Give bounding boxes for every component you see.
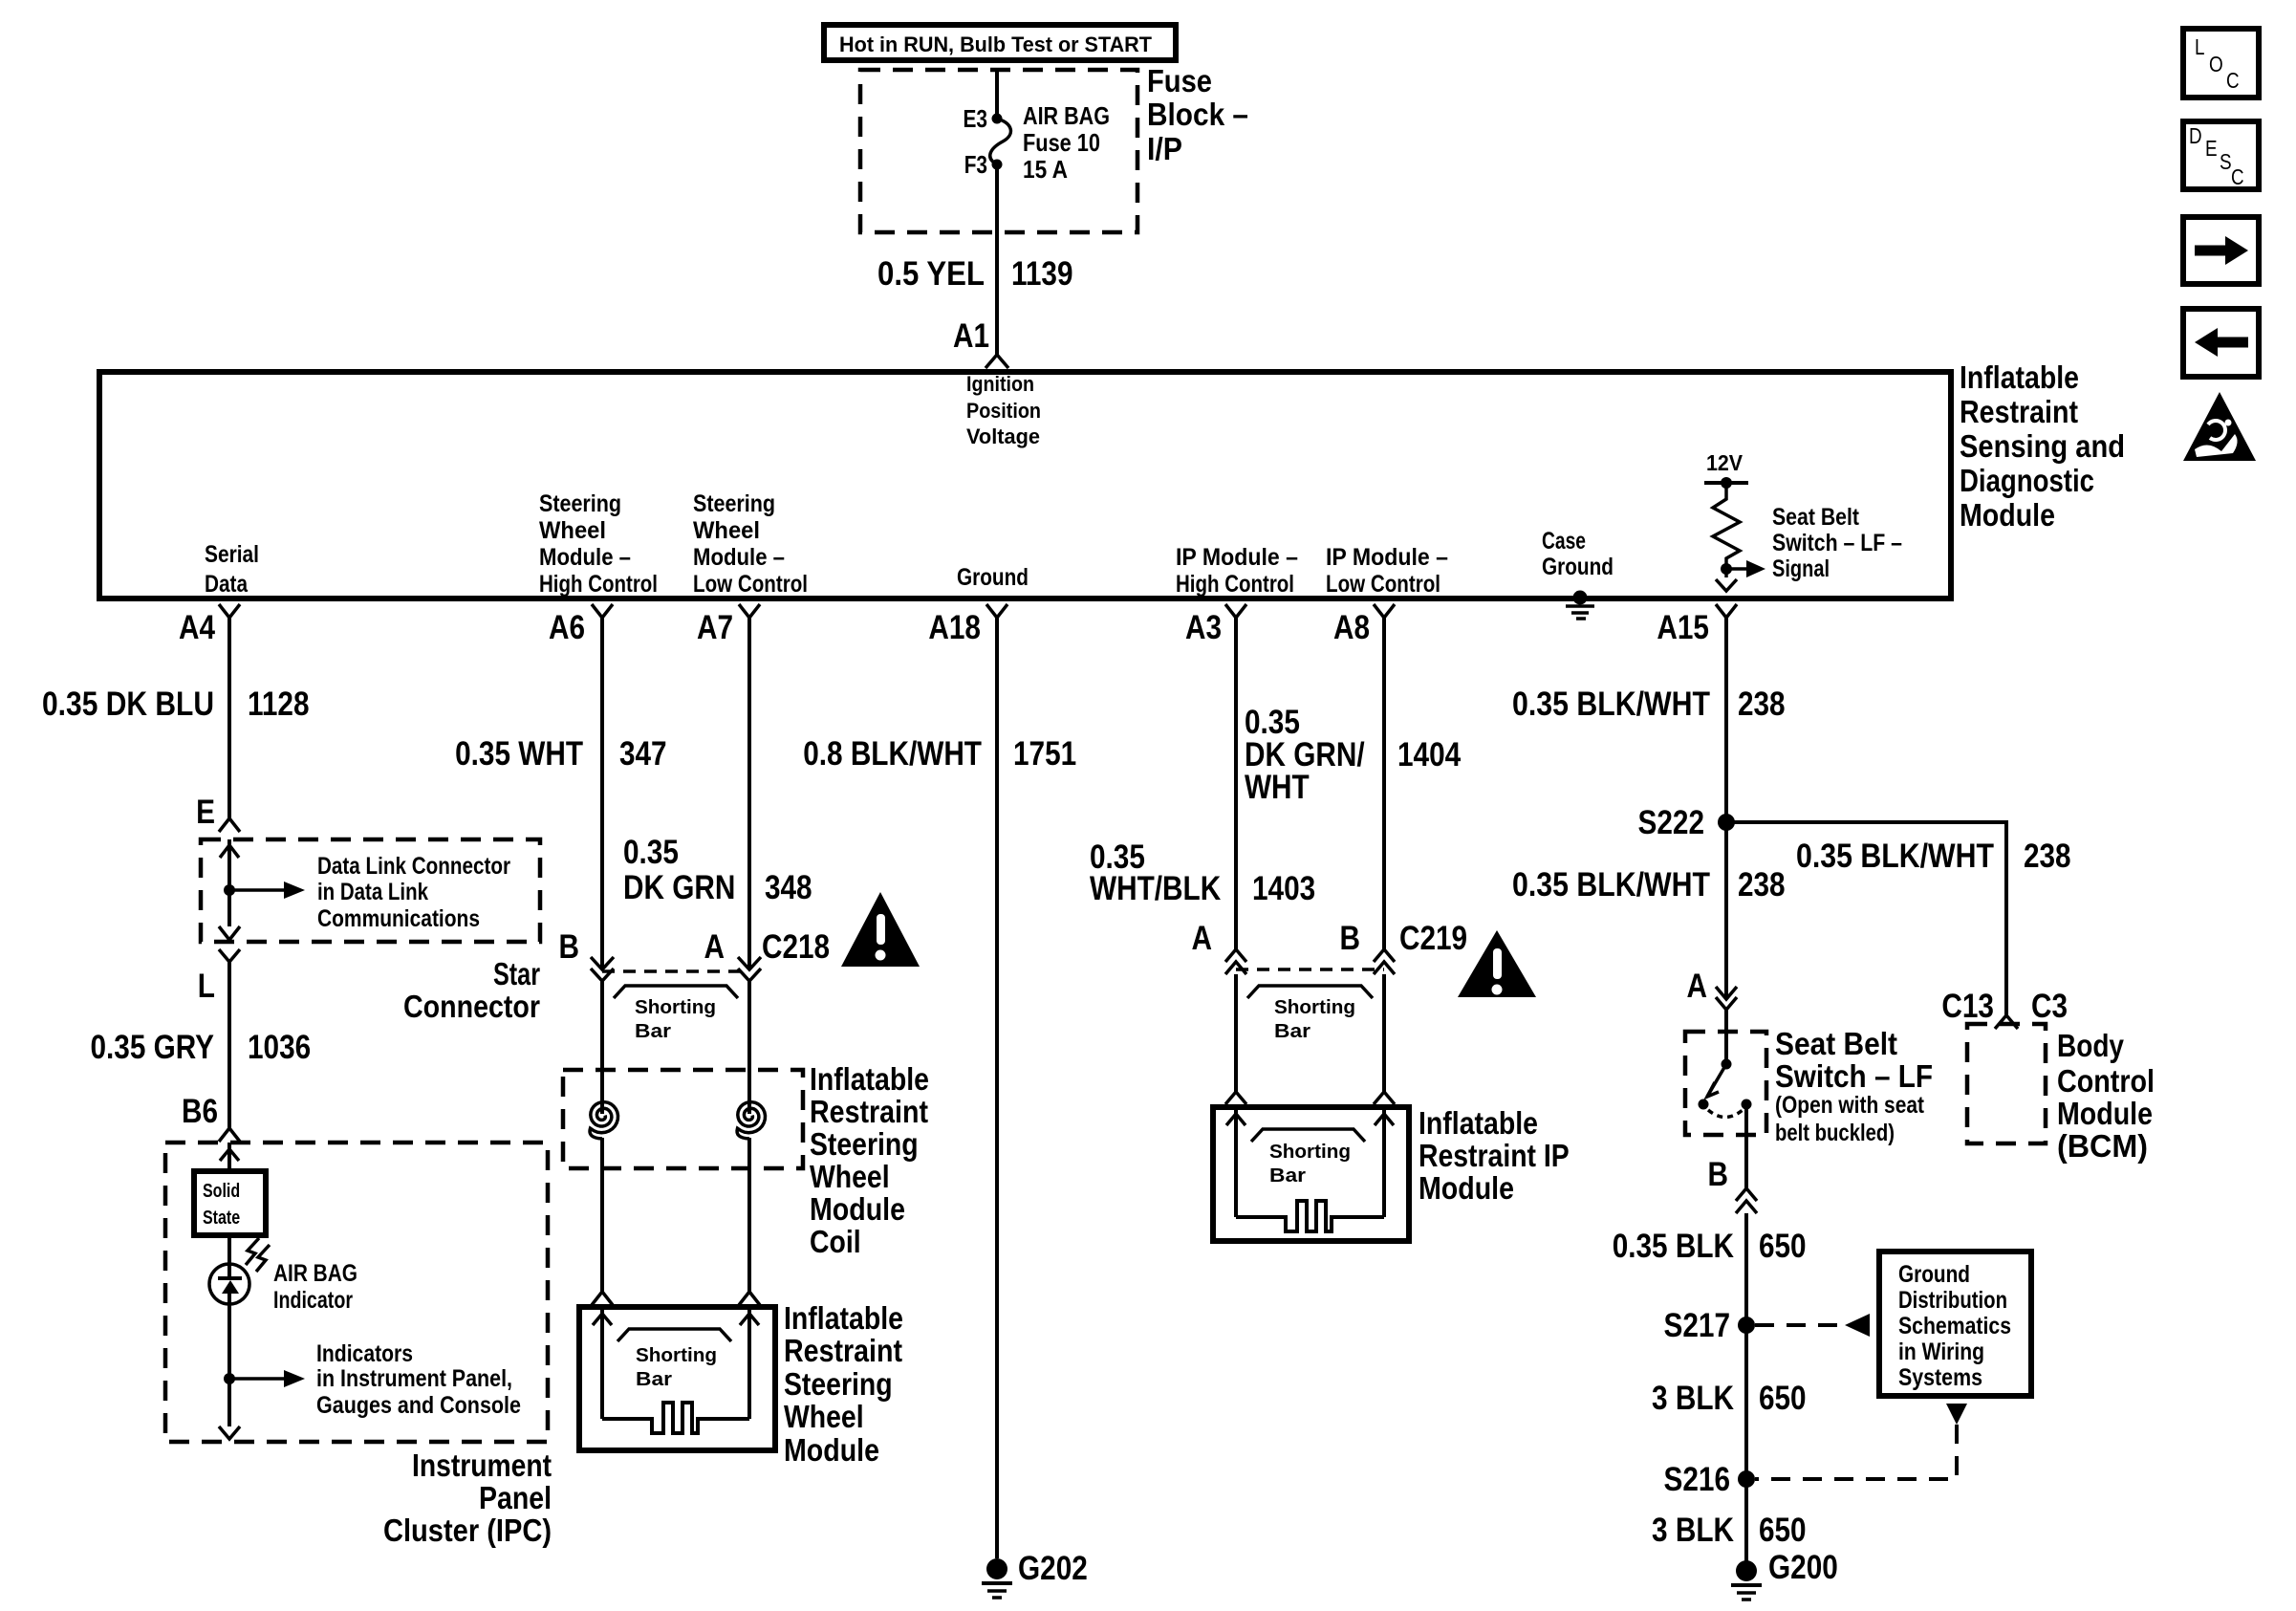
svg-text:Data: Data bbox=[205, 571, 249, 598]
svg-text:Ground: Ground bbox=[957, 564, 1029, 591]
svg-text:A: A bbox=[1192, 920, 1213, 957]
svg-text:Cluster (IPC): Cluster (IPC) bbox=[383, 1513, 552, 1548]
svg-text:1036: 1036 bbox=[248, 1029, 311, 1066]
svg-text:C219: C219 bbox=[1399, 920, 1467, 957]
svg-text:Indicators: Indicators bbox=[316, 1340, 413, 1367]
svg-text:Ground: Ground bbox=[1898, 1261, 1970, 1288]
svg-text:3 BLK: 3 BLK bbox=[1652, 1380, 1734, 1417]
svg-text:in Wiring: in Wiring bbox=[1898, 1339, 1984, 1365]
svg-text:A1: A1 bbox=[953, 317, 989, 355]
svg-text:A15: A15 bbox=[1657, 609, 1709, 646]
svg-text:Shorting: Shorting bbox=[1269, 1142, 1351, 1163]
svg-text:238: 238 bbox=[2024, 838, 2071, 875]
svg-text:Restraint: Restraint bbox=[810, 1094, 928, 1129]
svg-text:C: C bbox=[2231, 164, 2244, 189]
svg-text:A: A bbox=[1687, 968, 1708, 1005]
svg-text:A: A bbox=[704, 928, 726, 966]
svg-text:1751: 1751 bbox=[1013, 735, 1076, 773]
svg-text:Wheel: Wheel bbox=[810, 1159, 890, 1194]
svg-text:Module: Module bbox=[2057, 1096, 2153, 1131]
svg-text:Wheel: Wheel bbox=[784, 1399, 864, 1434]
svg-text:High Control: High Control bbox=[1176, 571, 1294, 598]
svg-text:0.35 GRY: 0.35 GRY bbox=[91, 1029, 215, 1066]
svg-text:Fuse 10: Fuse 10 bbox=[1023, 128, 1100, 157]
svg-text:E3: E3 bbox=[964, 104, 988, 133]
svg-text:Low Control: Low Control bbox=[1326, 571, 1440, 598]
svg-text:1139: 1139 bbox=[1011, 255, 1073, 293]
svg-text:Serial: Serial bbox=[205, 541, 259, 568]
svg-text:D: D bbox=[2189, 123, 2202, 148]
svg-text:Distribution: Distribution bbox=[1898, 1287, 2007, 1314]
svg-text:Body: Body bbox=[2057, 1028, 2125, 1063]
svg-text:G202: G202 bbox=[1018, 1550, 1088, 1587]
svg-text:Steering: Steering bbox=[810, 1126, 919, 1162]
svg-text:High Control: High Control bbox=[539, 571, 658, 598]
svg-text:Bar: Bar bbox=[1274, 1021, 1310, 1042]
svg-text:Systems: Systems bbox=[1898, 1364, 1982, 1391]
svg-text:0.8 BLK/WHT: 0.8 BLK/WHT bbox=[803, 735, 982, 773]
svg-text:I/P: I/P bbox=[1147, 131, 1182, 166]
svg-text:Sensing and: Sensing and bbox=[1960, 428, 2125, 464]
svg-text:Schematics: Schematics bbox=[1898, 1313, 2011, 1339]
svg-text:348: 348 bbox=[765, 869, 812, 906]
svg-text:L: L bbox=[2195, 34, 2205, 59]
svg-text:Steering: Steering bbox=[784, 1366, 893, 1402]
svg-text:AIR BAG: AIR BAG bbox=[273, 1260, 357, 1287]
svg-text:Ground: Ground bbox=[1542, 554, 1614, 580]
svg-text:Module: Module bbox=[784, 1432, 879, 1468]
svg-text:650: 650 bbox=[1759, 1512, 1807, 1549]
svg-text:Shorting: Shorting bbox=[636, 1345, 717, 1366]
svg-text:Instrument: Instrument bbox=[412, 1448, 552, 1483]
svg-text:State: State bbox=[203, 1208, 240, 1229]
svg-text:238: 238 bbox=[1738, 686, 1786, 723]
svg-text:238: 238 bbox=[1738, 866, 1786, 903]
svg-text:Module –: Module – bbox=[539, 544, 631, 571]
svg-text:Data Link Connector: Data Link Connector bbox=[317, 853, 510, 880]
svg-text:650: 650 bbox=[1759, 1380, 1807, 1417]
svg-text:Ignition: Ignition bbox=[966, 372, 1034, 396]
svg-text:0.35 BLK: 0.35 BLK bbox=[1613, 1228, 1734, 1265]
svg-text:S222: S222 bbox=[1638, 804, 1705, 841]
svg-text:Case: Case bbox=[1542, 528, 1586, 555]
svg-text:A4: A4 bbox=[179, 609, 215, 646]
svg-text:Inflatable: Inflatable bbox=[1960, 359, 2079, 395]
svg-text:15 A: 15 A bbox=[1023, 155, 1068, 184]
svg-text:F3: F3 bbox=[964, 150, 987, 179]
svg-text:12V: 12V bbox=[1706, 450, 1744, 475]
svg-text:0.35 BLK/WHT: 0.35 BLK/WHT bbox=[1512, 686, 1710, 723]
svg-text:C218: C218 bbox=[762, 928, 830, 966]
svg-text:Hot in RUN, Bulb Test or START: Hot in RUN, Bulb Test or START bbox=[839, 33, 1153, 56]
svg-text:Block –: Block – bbox=[1147, 97, 1248, 132]
svg-text:(BCM): (BCM) bbox=[2057, 1128, 2148, 1164]
svg-text:Position: Position bbox=[966, 399, 1041, 423]
svg-text:0.35 DK BLU: 0.35 DK BLU bbox=[42, 686, 214, 723]
svg-text:0.5 YEL: 0.5 YEL bbox=[877, 255, 985, 293]
svg-text:Coil: Coil bbox=[810, 1224, 861, 1259]
svg-text:B: B bbox=[1340, 920, 1361, 957]
svg-text:347: 347 bbox=[619, 735, 667, 773]
svg-text:WHT/BLK: WHT/BLK bbox=[1090, 870, 1221, 907]
svg-text:Control: Control bbox=[2057, 1063, 2155, 1099]
svg-text:1403: 1403 bbox=[1252, 870, 1315, 907]
svg-text:Switch – LF: Switch – LF bbox=[1775, 1058, 1933, 1094]
svg-text:Low Control: Low Control bbox=[693, 571, 808, 598]
svg-text:AIR BAG: AIR BAG bbox=[1023, 101, 1110, 130]
svg-text:Switch – LF –: Switch – LF – bbox=[1772, 530, 1902, 556]
svg-text:Bar: Bar bbox=[635, 1021, 671, 1042]
svg-text:B6: B6 bbox=[182, 1093, 218, 1130]
svg-text:Restraint IP: Restraint IP bbox=[1419, 1138, 1570, 1173]
svg-text:IP Module –: IP Module – bbox=[1326, 544, 1448, 571]
svg-text:in Instrument Panel,: in Instrument Panel, bbox=[316, 1365, 512, 1392]
svg-text:A6: A6 bbox=[549, 609, 585, 646]
svg-text:0.35 BLK/WHT: 0.35 BLK/WHT bbox=[1796, 838, 1994, 875]
svg-text:Steering: Steering bbox=[693, 490, 775, 517]
svg-text:3 BLK: 3 BLK bbox=[1652, 1512, 1734, 1549]
svg-text:(Open with seat: (Open with seat bbox=[1775, 1092, 1925, 1119]
svg-text:Inflatable: Inflatable bbox=[810, 1061, 929, 1097]
svg-text:Fuse: Fuse bbox=[1147, 63, 1212, 98]
svg-text:Inflatable: Inflatable bbox=[1419, 1105, 1538, 1141]
svg-text:Wheel: Wheel bbox=[693, 517, 760, 544]
svg-text:A3: A3 bbox=[1185, 609, 1222, 646]
svg-text:C13: C13 bbox=[1941, 988, 1994, 1025]
svg-text:Communications: Communications bbox=[317, 905, 480, 932]
svg-text:Indicator: Indicator bbox=[273, 1287, 353, 1314]
svg-text:L: L bbox=[198, 968, 215, 1005]
svg-text:Diagnostic: Diagnostic bbox=[1960, 463, 2094, 498]
svg-text:Voltage: Voltage bbox=[966, 425, 1040, 448]
svg-text:Module –: Module – bbox=[693, 544, 785, 571]
svg-text:WHT: WHT bbox=[1245, 769, 1310, 806]
svg-text:Seat Belt: Seat Belt bbox=[1775, 1026, 1897, 1061]
svg-text:1404: 1404 bbox=[1397, 736, 1462, 773]
svg-text:A18: A18 bbox=[928, 609, 981, 646]
svg-text:Module: Module bbox=[810, 1191, 905, 1227]
svg-text:0.35: 0.35 bbox=[623, 834, 679, 871]
svg-text:Module: Module bbox=[1960, 497, 2055, 533]
svg-text:Restraint: Restraint bbox=[1960, 394, 2078, 429]
svg-text:B: B bbox=[559, 928, 580, 966]
svg-text:E: E bbox=[2205, 136, 2218, 161]
svg-text:Restraint: Restraint bbox=[784, 1333, 902, 1368]
svg-text:belt buckled): belt buckled) bbox=[1775, 1120, 1895, 1146]
svg-text:Solid: Solid bbox=[203, 1181, 240, 1202]
svg-text:1128: 1128 bbox=[248, 686, 310, 723]
svg-text:A8: A8 bbox=[1333, 609, 1370, 646]
svg-text:S216: S216 bbox=[1664, 1461, 1731, 1498]
svg-text:Signal: Signal bbox=[1772, 555, 1830, 582]
svg-text:0.35 WHT: 0.35 WHT bbox=[455, 735, 583, 773]
svg-text:B: B bbox=[1708, 1156, 1729, 1193]
svg-text:Bar: Bar bbox=[636, 1369, 672, 1390]
svg-text:Wheel: Wheel bbox=[539, 517, 606, 544]
svg-text:0.35 BLK/WHT: 0.35 BLK/WHT bbox=[1512, 866, 1710, 903]
svg-text:Shorting: Shorting bbox=[635, 997, 716, 1018]
svg-text:DK GRN: DK GRN bbox=[623, 869, 735, 906]
svg-text:S217: S217 bbox=[1664, 1307, 1731, 1344]
svg-text:in Data Link: in Data Link bbox=[317, 879, 428, 905]
svg-text:C3: C3 bbox=[2031, 988, 2068, 1025]
svg-text:O: O bbox=[2209, 52, 2223, 76]
svg-text:S: S bbox=[2220, 149, 2232, 174]
svg-text:A7: A7 bbox=[697, 609, 733, 646]
svg-text:Steering: Steering bbox=[539, 490, 621, 517]
svg-text:E: E bbox=[196, 794, 215, 831]
svg-text:C: C bbox=[2226, 68, 2240, 93]
svg-text:Star: Star bbox=[493, 956, 540, 991]
svg-text:IP Module –: IP Module – bbox=[1176, 544, 1298, 571]
svg-text:Shorting: Shorting bbox=[1274, 997, 1355, 1018]
svg-text:650: 650 bbox=[1759, 1228, 1807, 1265]
svg-text:Seat Belt: Seat Belt bbox=[1772, 504, 1860, 531]
svg-text:Gauges and Console: Gauges and Console bbox=[316, 1392, 521, 1419]
svg-text:Module: Module bbox=[1419, 1170, 1514, 1206]
svg-text:Connector: Connector bbox=[403, 989, 540, 1024]
svg-text:G200: G200 bbox=[1768, 1549, 1838, 1586]
svg-text:Panel: Panel bbox=[479, 1480, 552, 1515]
svg-text:Inflatable: Inflatable bbox=[784, 1300, 903, 1336]
svg-text:Bar: Bar bbox=[1269, 1165, 1306, 1186]
